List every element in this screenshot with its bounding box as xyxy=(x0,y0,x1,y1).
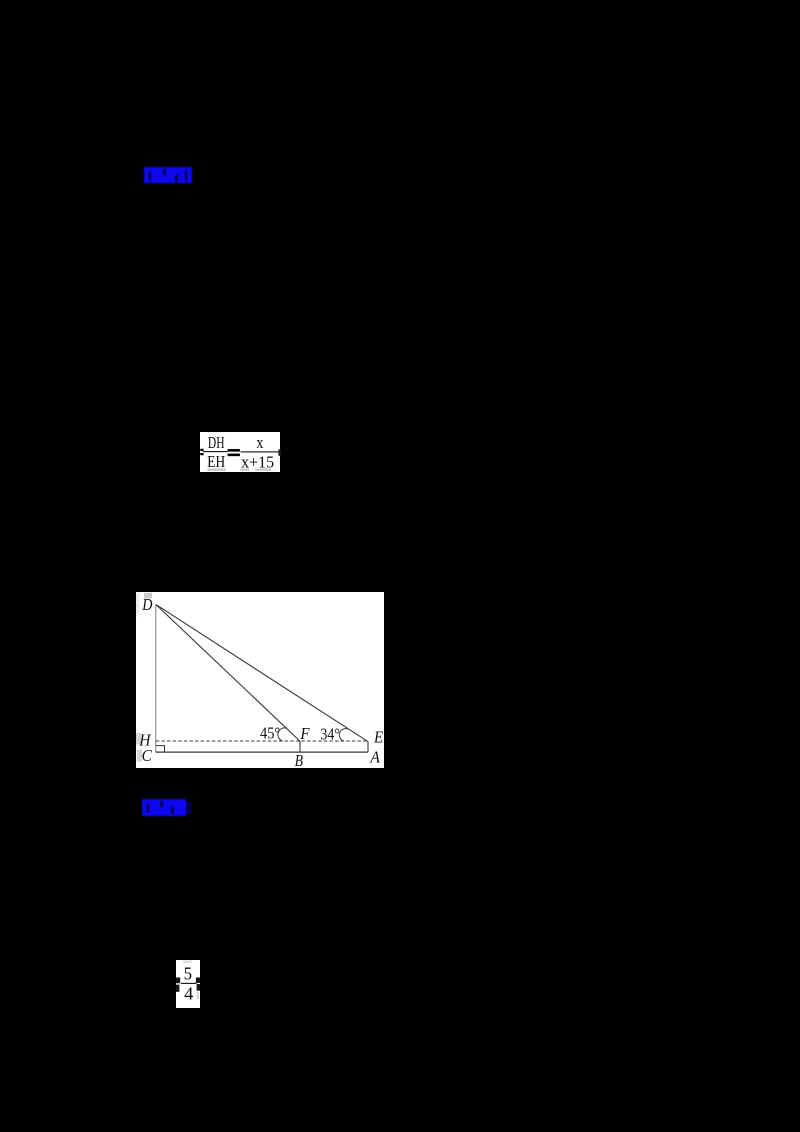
svg-text:34°: 34° xyxy=(320,724,339,743)
left margin light strip xyxy=(136,592,140,616)
angle arc at F xyxy=(278,728,287,741)
formula box DH/EH = x/(x+15) xyxy=(200,432,280,472)
sight line D-F xyxy=(156,604,300,740)
angle arc at E xyxy=(339,728,347,740)
geometry figure box xyxy=(136,592,384,768)
gray mark behind C xyxy=(137,749,142,761)
fraction box 5/4 xyxy=(176,960,200,1008)
gray handle square above D xyxy=(144,593,152,599)
vertical E-A xyxy=(367,741,369,752)
svg-text:5: 5 xyxy=(184,963,193,983)
wall line D-C vertical xyxy=(155,604,157,752)
left edge partial glyph xyxy=(176,977,180,983)
fraction bar xyxy=(181,983,197,984)
fraction bar 1 xyxy=(203,451,228,452)
svg-text:D: D xyxy=(141,595,153,614)
ground line C-A xyxy=(156,751,368,753)
dashed horizontal H-E xyxy=(156,740,368,742)
gray residue right xyxy=(197,991,199,999)
svg-text:4: 4 xyxy=(184,983,193,1003)
svg-text:DH: DH xyxy=(208,433,225,452)
fraction bar 2 xyxy=(240,451,279,452)
svg-text:x: x xyxy=(256,433,263,452)
right edge partial glyph xyxy=(278,449,280,456)
svg-text:EH: EH xyxy=(207,452,225,471)
dark chevron tail xyxy=(186,802,192,814)
label tag1 blue xyxy=(144,167,192,183)
gray mark behind H xyxy=(136,733,141,745)
gray residue underlines xyxy=(207,468,225,470)
svg-text:E: E xyxy=(373,727,384,746)
svg-text:45°: 45° xyxy=(260,723,280,742)
svg-text:B: B xyxy=(295,751,304,769)
right angle mark at C xyxy=(156,745,165,752)
right edge partial glyph xyxy=(196,977,200,983)
vertical F-B xyxy=(299,741,301,752)
sight line D-E xyxy=(156,604,368,741)
left edge partial equals bleed xyxy=(200,448,203,450)
svg-text:A: A xyxy=(369,747,380,766)
svg-text:F: F xyxy=(300,724,311,743)
label tag2 blue xyxy=(142,799,192,816)
gray smudge top xyxy=(183,960,192,962)
svg-text:C: C xyxy=(142,746,153,765)
bold equals sign xyxy=(227,449,239,452)
